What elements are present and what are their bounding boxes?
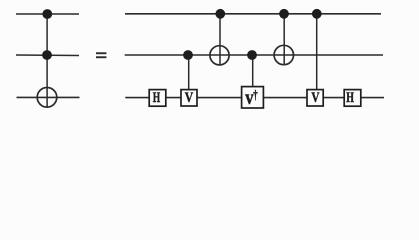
svg-text:V: V (311, 90, 319, 106)
svg-text:H: H (153, 90, 161, 106)
svg-text:V: V (185, 90, 194, 106)
svg-text:v: v (245, 87, 253, 109)
svg-text:H: H (346, 90, 354, 106)
svg-text:†: † (253, 87, 258, 102)
